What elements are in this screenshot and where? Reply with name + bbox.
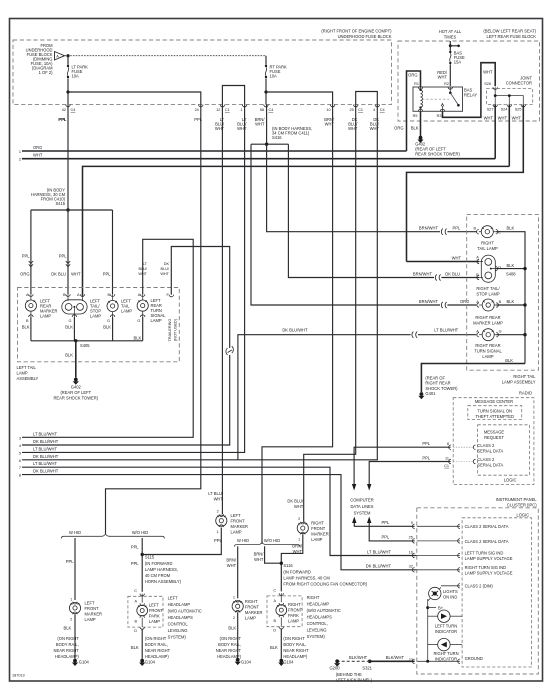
svg-text:BLK: BLK: [103, 325, 111, 330]
svg-text:LEFT TURN: LEFT TURN: [435, 624, 457, 629]
svg-text:W HID: W HID: [69, 530, 81, 535]
svg-text:NEAR RIGHT: NEAR RIGHT: [283, 648, 309, 653]
svg-text:WHT: WHT: [483, 70, 493, 75]
IPC pin 25 row: [412, 539, 414, 543]
svg-text:PPL: PPL: [58, 117, 66, 122]
svg-text:(ON RIGHT: (ON RIGHT: [57, 636, 79, 641]
svg-text:DK BLU/WHT: DK BLU/WHT: [33, 469, 59, 474]
svg-text:NEAR RIGHT: NEAR RIGHT: [216, 648, 242, 653]
pin S26: [493, 87, 497, 89]
svg-text:1 OF 2): 1 OF 2): [39, 70, 54, 75]
svg-text:LEFT: LEFT: [149, 603, 160, 608]
svg-text:INSTRUMENT PANEL: INSTRUMENT PANEL: [496, 497, 538, 502]
svg-text:NEAR RIGHT: NEAR RIGHT: [145, 648, 171, 653]
svg-text:PPL: PPL: [422, 455, 430, 460]
svg-text:C: C: [498, 231, 501, 235]
svg-text:LEFT: LEFT: [168, 596, 179, 601]
svg-text:1: 1: [217, 530, 219, 534]
wire BLK marker B to bus: [496, 304, 525, 306]
message box: TURN SIGNAL ON THEFT ATTEMPTED: [468, 406, 522, 420]
connector 12 C1: [215, 105, 230, 131]
svg-text:PARK: PARK: [149, 614, 160, 619]
svg-text:LOGIC: LOGIC: [516, 513, 529, 518]
svg-text:WHT: WHT: [348, 126, 358, 131]
from underhood fuse block label: [26, 43, 53, 75]
svg-text:DK BLU: DK BLU: [445, 271, 460, 276]
svg-text:MESSAGE CENTER: MESSAGE CENTER: [475, 399, 513, 404]
splice S408: [523, 267, 526, 270]
svg-text:(IN FORWARD: (IN FORWARD: [283, 570, 311, 575]
svg-text:C1: C1: [444, 464, 449, 468]
svg-text:7: 7: [19, 466, 21, 470]
svg-text:25: 25: [349, 108, 353, 112]
SECTION-RIGHT: [330, 214, 539, 682]
svg-text:D: D: [134, 629, 137, 633]
wire BLK to G104 (left marker): [74, 614, 76, 659]
relay pin R5: [418, 109, 422, 111]
svg-text:RIGHT: RIGHT: [311, 521, 324, 526]
svg-text:PPL: PPL: [382, 520, 390, 525]
svg-text:BRN/: BRN/: [226, 558, 237, 563]
svg-text:G: G: [107, 319, 110, 323]
svg-text:RELAY: RELAY: [464, 93, 477, 98]
svg-text:2: 2: [19, 158, 21, 162]
SECTION-TOP: [13, 29, 540, 262]
svg-text:INDICATOR: INDICATOR: [435, 656, 457, 661]
svg-text:BLK: BLK: [65, 353, 73, 358]
svg-text:DK BLU/WHT: DK BLU/WHT: [33, 439, 59, 444]
svg-text:WHT: WHT: [293, 549, 303, 554]
IPC pin 9 wire PPL from data lines: [354, 523, 414, 526]
right headlamp dashed box: [267, 596, 302, 627]
svg-text:BLK: BLK: [270, 645, 278, 650]
svg-text:C4: C4: [269, 108, 274, 112]
svg-text:RIGHT: RIGHT: [288, 602, 301, 607]
wire BRN/WHT S416-right to right tail/stop B (DK BLU): [288, 144, 434, 277]
svg-text:4: 4: [19, 444, 21, 448]
IPC pin 25 wire PPL from data lines: [369, 523, 414, 541]
svg-text:CLASS 2 SERIAL DATA: CLASS 2 SERIAL DATA: [465, 524, 509, 529]
svg-text:LAMP: LAMP: [121, 309, 132, 314]
connector 42 C4: [59, 105, 76, 122]
svg-text:WHT: WHT: [160, 272, 169, 276]
svg-text:BLK: BLK: [131, 645, 139, 650]
svg-text:BRN/WHT: BRN/WHT: [413, 271, 433, 276]
svg-text:BRN/: BRN/: [254, 551, 265, 556]
svg-text:BLK: BLK: [505, 358, 513, 363]
svg-text:16: 16: [409, 550, 413, 554]
svg-text:1: 1: [19, 150, 21, 154]
svg-text:G401: G401: [425, 391, 436, 396]
svg-text:DK BLU/WHT: DK BLU/WHT: [366, 564, 392, 569]
lamp: RIGHT REAR TURN SIGNAL LAMP: [474, 329, 502, 359]
svg-text:R1: R1: [414, 82, 419, 86]
svg-text:REAR SHOCK TOWER): REAR SHOCK TOWER): [415, 152, 460, 157]
wire BLK to G104 (left park): [141, 629, 143, 659]
svg-text:PPL: PPL: [66, 559, 74, 564]
IPC pin 23 ground row: [412, 659, 414, 663]
wire: RT PARK fuse to conn 58 and conn 10: [265, 78, 267, 104]
wire WHT S24 to left tail A line: [508, 105, 510, 167]
fuse RT PARK 10A: [265, 56, 287, 79]
lamp: RIGHT TAIL/STOP LAMP: [476, 255, 501, 297]
svg-text:C: C: [134, 589, 137, 593]
svg-text:BLU/: BLU/: [161, 267, 170, 271]
IPC pin 9 row: [412, 524, 414, 528]
svg-text:42: 42: [62, 108, 66, 112]
lamp: RIGHT FRONT MARKER LAMP (upper): [297, 517, 329, 542]
svg-text:LAMP: LAMP: [85, 617, 96, 622]
svg-text:G104: G104: [79, 660, 90, 665]
svg-text:DATA LINES: DATA LINES: [350, 504, 373, 509]
left headlamp pin D: [141, 618, 143, 627]
wire BLK tail-stop G to bus: [73, 317, 75, 341]
wire BLK tail G to bus: [112, 317, 114, 341]
lamp: LEFT TAIL/STOP LAMP: [62, 293, 102, 323]
svg-text:C1: C1: [358, 108, 363, 112]
wire PPL conn 24 to left headlamp brace: [106, 105, 201, 534]
wire WHT S25 riser: [407, 105, 524, 262]
svg-text:WHT: WHT: [214, 496, 224, 501]
svg-text:FROM RIGHT COOLING FAN CONNECT: FROM RIGHT COOLING FAN CONNECTOR): [283, 582, 367, 587]
svg-text:REAR SHOCK TOWER): REAR SHOCK TOWER): [53, 396, 98, 401]
svg-text:3: 3: [19, 436, 21, 440]
svg-text:SYSTEM): SYSTEM): [168, 635, 187, 640]
radio pin 8 wire PPL to data lines: [354, 447, 451, 484]
svg-text:CLASS 2 SERIAL DATA: CLASS 2 SERIAL DATA: [465, 539, 509, 544]
svg-text:4: 4: [373, 108, 375, 112]
wire ORG relay R1 to row 1 riser: [407, 71, 421, 151]
svg-text:TAIL LAMP: TAIL LAMP: [477, 246, 498, 251]
svg-text:CLASS 2: CLASS 2: [477, 457, 495, 462]
joint connector internal bus: [495, 87, 523, 104]
svg-text:BLK: BLK: [507, 299, 515, 304]
wire BLK tail/stop G to splice S408: [495, 268, 525, 270]
underhood fuse block dashed box: [13, 40, 392, 105]
svg-text:S26: S26: [484, 82, 491, 86]
svg-text:WHT: WHT: [370, 126, 380, 131]
svg-text:(RIGHT FRONT OF ENGINE COMPT): (RIGHT FRONT OF ENGINE COMPT): [321, 29, 392, 34]
fuse BAS 15A: [449, 51, 465, 65]
svg-text:(ON RIGHT: (ON RIGHT: [220, 636, 242, 641]
fuse LT PARK 10A: [67, 56, 88, 79]
wire BLK S405 to ground G402: [75, 341, 77, 378]
svg-text:RIGHT: RIGHT: [245, 599, 258, 604]
svg-text:BLK/WHT: BLK/WHT: [349, 655, 368, 660]
svg-text:S416: S416: [272, 135, 282, 140]
SECTION-BOTTOM: [54, 510, 368, 667]
svg-text:FRONT: FRONT: [85, 606, 100, 611]
relay switch: [449, 87, 451, 93]
svg-text:24: 24: [195, 108, 199, 112]
lamp: LEFT FRONT MARKER LAMP (w hid): [66, 538, 102, 622]
svg-text:LT BLU/WHT: LT BLU/WHT: [434, 328, 458, 333]
wire BRN/WHT brace to right front marker (w hid): [237, 546, 239, 598]
svg-text:WHT: WHT: [294, 504, 304, 509]
svg-text:LEVELING: LEVELING: [168, 628, 188, 633]
svg-text:2: 2: [298, 517, 300, 521]
svg-text:RIGHT TAIL/: RIGHT TAIL/: [476, 286, 500, 291]
wire DK BLU/WHT row 6 riser to right rear turn (LT BLU/WHT): [238, 335, 411, 460]
svg-text:WHT: WHT: [33, 152, 43, 157]
svg-text:11: 11: [445, 456, 449, 460]
IPC class 2 dim row: [441, 585, 460, 587]
svg-text:BLK: BLK: [22, 325, 30, 330]
wire WHT left tail A to S24: [83, 166, 510, 297]
svg-text:S408: S408: [506, 272, 516, 277]
svg-text:LT BLU/WHT: LT BLU/WHT: [33, 461, 57, 466]
node: dimming feed junction: [66, 54, 69, 57]
relay pin R2: [448, 87, 452, 89]
svg-text:LIGHTS: LIGHTS: [443, 589, 458, 594]
svg-text:THEFT ATTEMPTED: THEFT ATTEMPTED: [475, 414, 514, 419]
svg-text:WHT: WHT: [71, 272, 81, 277]
wire WHT relay R3 to joint connector S26: [443, 63, 496, 118]
svg-text:RIGHT TURN: RIGHT TURN: [433, 651, 458, 656]
svg-text:PPL: PPL: [131, 561, 139, 566]
connector 10: [324, 105, 335, 127]
svg-text:LT: LT: [143, 262, 148, 266]
splice S321: [368, 660, 372, 664]
wire BLK turn G to bus: [496, 334, 525, 336]
wire BLK marker B to bus: [30, 317, 32, 341]
svg-text:BLK/WHT: BLK/WHT: [386, 655, 405, 660]
svg-text:10A: 10A: [270, 74, 278, 79]
svg-text:B: B: [499, 300, 502, 304]
lamp: RIGHT FRONT PARK LAMP: [274, 599, 303, 624]
IPC pin 16 row: [412, 553, 414, 557]
svg-text:HEADLAMPS: HEADLAMPS: [168, 615, 194, 620]
svg-text:25: 25: [409, 536, 413, 540]
svg-text:PPL: PPL: [382, 535, 390, 540]
svg-text:LAMP: LAMP: [311, 537, 322, 542]
svg-text:LAMP: LAMP: [245, 615, 256, 620]
svg-text:DK: DK: [164, 262, 170, 266]
svg-text:HEADLAMP): HEADLAMP): [145, 654, 170, 659]
svg-text:BODY RAIL,: BODY RAIL,: [145, 642, 168, 647]
wire PPL S415 to left tail B: [112, 210, 114, 294]
wire PPL conn 42 to splice S415: [67, 105, 69, 210]
arrow down to computer data lines: [352, 484, 356, 491]
svg-text:LAMP: LAMP: [231, 530, 242, 535]
wire BRN/WHT upper-right marker to S116: [281, 534, 303, 591]
svg-text:HORN ASSEMBLY): HORN ASSEMBLY): [145, 579, 182, 584]
svg-text:(REAR OF LEFT: (REAR OF LEFT: [60, 390, 91, 395]
connector 4 C4: [370, 105, 385, 131]
svg-text:BRN/WHT: BRN/WHT: [419, 299, 439, 304]
svg-text:(W/O AUTOMATIC: (W/O AUTOMATIC: [168, 609, 202, 614]
svg-text:ORG: ORG: [20, 272, 29, 277]
svg-text:CLASS 2 (DIM): CLASS 2 (DIM): [465, 584, 494, 589]
svg-text:LAMP: LAMP: [40, 314, 51, 319]
svg-text:S415: S415: [55, 201, 65, 206]
svg-text:RIGHT REAR: RIGHT REAR: [475, 315, 500, 320]
svg-text:8: 8: [19, 474, 21, 478]
svg-text:G104: G104: [283, 660, 294, 665]
svg-text:32: 32: [409, 565, 413, 569]
off-page arrow A: [55, 52, 65, 61]
svg-text:B: B: [274, 619, 277, 623]
wire BRN/WHT brace W/O to S116: [265, 546, 282, 563]
svg-text:LEFT: LEFT: [231, 513, 242, 518]
inline connector on trailering wire: [226, 346, 233, 355]
svg-text:1: 1: [70, 597, 72, 601]
indicator RIGHT TURN INDICATOR: [428, 638, 462, 661]
svg-text:LAMP: LAMP: [90, 314, 101, 319]
wire BLK to G104 (right marker): [237, 613, 239, 658]
svg-text:PPL: PPL: [194, 117, 202, 122]
svg-text:LEVELING: LEVELING: [307, 628, 327, 633]
svg-text:UNDERHOOD FUSE BLOCK: UNDERHOOD FUSE BLOCK: [338, 34, 392, 39]
svg-text:G104: G104: [145, 660, 156, 665]
svg-text:LAMP SUPPLY VOLTAGE: LAMP SUPPLY VOLTAGE: [465, 556, 513, 561]
right headlamp pin D: [280, 617, 282, 626]
svg-text:A: A: [274, 599, 277, 603]
lamp: RIGHT FRONT MARKER LAMP (w hid): [232, 596, 262, 621]
svg-text:PPL: PPL: [103, 272, 111, 277]
ground G104 (right marker): [236, 658, 240, 662]
svg-text:G: G: [137, 319, 140, 323]
svg-text:BRN/WHT: BRN/WHT: [419, 226, 439, 231]
svg-text:REQUEST: REQUEST: [484, 435, 504, 440]
svg-text:A: A: [56, 54, 59, 58]
svg-text:HEADLAMPS: HEADLAMPS: [307, 615, 333, 620]
svg-text:HEADLAMP): HEADLAMP): [55, 654, 80, 659]
svg-text:(ON RIGHT: (ON RIGHT: [283, 636, 305, 641]
svg-text:(BEHIND THE: (BEHIND THE: [336, 672, 362, 677]
svg-text:PPL: PPL: [59, 254, 67, 259]
svg-text:S405: S405: [80, 343, 90, 348]
svg-text:LEFT: LEFT: [85, 601, 96, 606]
svg-text:BRN/: BRN/: [292, 544, 303, 549]
svg-text:2: 2: [233, 616, 235, 620]
lamp: RIGHT REAR MARKER LAMP: [473, 299, 503, 325]
svg-text:BLK: BLK: [134, 336, 142, 341]
svg-text:HOT AT ALL: HOT AT ALL: [439, 29, 462, 34]
svg-text:LEFT TURN SIG IND: LEFT TURN SIG IND: [465, 551, 504, 556]
svg-text:W/O HID: W/O HID: [264, 538, 280, 543]
svg-text:ORG: ORG: [408, 73, 417, 78]
wire: arrow A to RT PARK fuse (thin): [65, 55, 267, 57]
splice S416 bar: [266, 105, 268, 145]
svg-text:SERIAL DATA: SERIAL DATA: [477, 448, 503, 453]
IPC pin 32 row: [412, 568, 414, 572]
svg-text:LEFT TAIL: LEFT TAIL: [17, 365, 37, 370]
svg-text:WHT: WHT: [452, 255, 462, 260]
svg-text:DK BLU: DK BLU: [51, 272, 66, 277]
svg-text:RIGHT TURN SIG IND: RIGHT TURN SIG IND: [465, 565, 507, 570]
svg-text:1: 1: [233, 596, 235, 600]
BLK ground bus: [31, 340, 143, 342]
svg-text:WHT: WHT: [438, 75, 448, 80]
wire PPL brace to S115: [141, 538, 143, 592]
jumper loop conn 25 to conn 4: [356, 92, 378, 105]
svg-text:(BELOW LEFT REAR SEAT): (BELOW LEFT REAR SEAT): [483, 29, 536, 34]
svg-text:WHT: WHT: [498, 116, 508, 121]
svg-text:HEADLAMP: HEADLAMP: [307, 602, 330, 607]
svg-text:LAMP: LAMP: [288, 619, 299, 624]
svg-text:5: 5: [19, 451, 21, 455]
svg-text:1: 1: [240, 108, 242, 112]
svg-text:(IN FORWARD: (IN FORWARD: [145, 561, 173, 566]
ground G402 (left rear): [419, 136, 423, 140]
svg-text:R3: R3: [437, 114, 442, 118]
IPC internal B+ bus: [427, 599, 429, 661]
svg-text:W/O HID: W/O HID: [132, 530, 148, 535]
battery feed tap: [449, 41, 451, 51]
relay pin R3: [440, 109, 444, 111]
wire DK BLU/WHT conn 25 to right front marker: [304, 105, 356, 522]
svg-text:CLASS 2: CLASS 2: [477, 443, 495, 448]
svg-text:MESSAGE: MESSAGE: [484, 429, 505, 434]
wire PPL/ORG S415 to left rear marker A: [30, 210, 32, 294]
svg-text:C4: C4: [71, 108, 76, 112]
svg-text:RIGHT TAIL: RIGHT TAIL: [513, 374, 536, 379]
ground G104 (right park): [279, 659, 283, 663]
svg-text:PARK: PARK: [288, 613, 299, 618]
splice S116: [280, 562, 283, 565]
relay BAS RELAY box: [413, 87, 463, 111]
svg-text:FRONT: FRONT: [149, 608, 164, 613]
wire WHT S27 to row 2: [494, 105, 496, 159]
svg-text:ASSEMBLY: ASSEMBLY: [17, 376, 39, 381]
wire PPL upper-left marker to S115: [142, 528, 221, 555]
svg-text:MARKER: MARKER: [311, 532, 329, 537]
svg-text:W HID: W HID: [237, 538, 249, 543]
relay coil: [421, 90, 423, 107]
lamp: LEFT FRONT MARKER LAMP (upper): [216, 510, 248, 535]
svg-text:D: D: [273, 629, 276, 633]
svg-text:SERIAL DATA: SERIAL DATA: [477, 463, 503, 468]
svg-text:1: 1: [298, 538, 300, 542]
relay mech link (dashed): [422, 98, 449, 100]
svg-text:FRONT: FRONT: [245, 604, 260, 609]
svg-text:RIGHT: RIGHT: [307, 595, 320, 600]
svg-text:MARKER: MARKER: [231, 524, 249, 529]
wire: LT PARK fuse to conn 42 and conn 24: [67, 78, 69, 104]
svg-text:STOP LAMP: STOP LAMP: [476, 292, 500, 297]
svg-text:FRONT: FRONT: [288, 608, 303, 613]
wire BLK/WHT S321 to G200 (dashed): [339, 660, 370, 662]
left rear fuse block dashed box: [398, 41, 540, 121]
radio logic dashed box: [478, 425, 530, 475]
svg-text:ORG: ORG: [394, 126, 403, 131]
svg-text:LT BLU/WHT: LT BLU/WHT: [367, 549, 391, 554]
svg-text:LAMP: LAMP: [482, 354, 493, 359]
svg-text:LT BLU/WHT: LT BLU/WHT: [33, 446, 57, 451]
ground G402 (left tail): [74, 378, 78, 382]
svg-text:R5: R5: [413, 114, 418, 118]
svg-text:LAMP: LAMP: [17, 371, 28, 376]
svg-text:S25: S25: [515, 108, 522, 112]
wire BLK bus to ground G401: [421, 364, 525, 393]
svg-text:S24: S24: [501, 108, 508, 112]
svg-text:MARKER LAMP: MARKER LAMP: [473, 320, 503, 325]
indicator LIGHTS ON IND: [429, 587, 458, 599]
svg-text:TURN SIGNAL ON: TURN SIGNAL ON: [477, 408, 512, 413]
svg-text:FRONT: FRONT: [311, 526, 326, 531]
svg-text:(W/O AUTOMATIC: (W/O AUTOMATIC: [307, 608, 341, 613]
wire WHT S25 branch to right tail/stop A: [407, 261, 480, 263]
wire PPL/DK BLU S415 to left tail-stop B: [67, 210, 69, 294]
svg-text:PPL: PPL: [131, 545, 139, 550]
svg-text:HEADLAMP): HEADLAMP): [283, 654, 308, 659]
svg-text:BODY RAIL,: BODY RAIL,: [56, 642, 79, 647]
svg-text:RIGHT REAR: RIGHT REAR: [475, 343, 500, 348]
svg-text:C4: C4: [380, 108, 385, 112]
svg-text:TRAILERING: TRAILERING: [168, 319, 172, 342]
connector 1: [237, 105, 247, 131]
